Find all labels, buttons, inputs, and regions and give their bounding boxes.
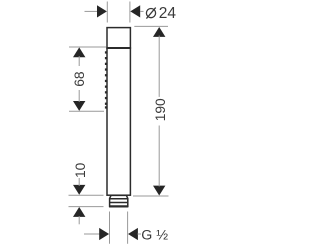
G half right extension line (127, 212, 129, 244)
dim68 top arrow (73, 47, 85, 57)
dia24 left extension line (106, 2, 108, 23)
dia24 label diameter symbol (146, 8, 155, 19)
dia24 right arrow (130, 5, 140, 17)
G half right arrow tail (138, 233, 142, 235)
dim68 bottom arrow (73, 101, 85, 111)
dim68 line lower (78, 90, 80, 102)
svg-text:68: 68 (72, 71, 87, 87)
dim68 bottom extension line (69, 110, 104, 112)
dim190 line upper (158, 36, 160, 97)
thread outline (110, 195, 128, 206)
dim190 top extension line (134, 25, 168, 27)
dim190 bottom extension line (133, 195, 169, 197)
dim190 line lower (158, 126, 160, 187)
dim10 top extension line (69, 194, 104, 196)
dim10 bottom extension line (69, 206, 104, 208)
dim10 upper arrow (points down) (73, 185, 85, 195)
dim10 lower tail (78, 216, 80, 224)
thread ridge 2 (110, 202, 128, 204)
shower body outline (107, 28, 130, 196)
svg-text:G ½: G ½ (141, 227, 168, 243)
G half left extension line (109, 212, 111, 244)
thread bottom edge (109, 205, 128, 207)
dia24 right extension line (129, 2, 131, 23)
G half left arrow (99, 228, 109, 240)
dia24 left arrow tail (85, 10, 99, 12)
svg-text:24: 24 (159, 5, 177, 22)
dim190 bottom arrow (153, 186, 165, 196)
svg-text:10: 10 (73, 162, 88, 178)
thread ridge 1 (110, 198, 128, 200)
svg-text:190: 190 (153, 98, 168, 121)
dim68 line upper (78, 56, 80, 66)
dia24 right arrow tail (140, 10, 144, 12)
G half left arrow tail (84, 233, 100, 235)
dim10 upper tail (78, 178, 80, 186)
dim10 lower arrow (points up) (73, 207, 85, 217)
spray nozzle dots (105, 51, 107, 108)
G half right arrow (128, 228, 138, 240)
dim68 top extension line (69, 46, 106, 48)
dim190 top arrow (153, 27, 165, 37)
cap joint line (106, 47, 131, 49)
dia24 left arrow (97, 5, 107, 17)
